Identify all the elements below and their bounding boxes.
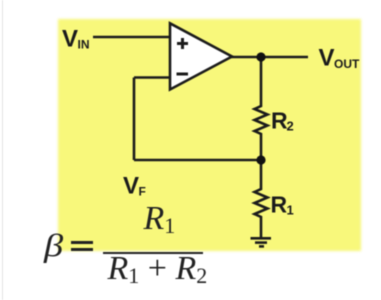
wire node A down to R2 <box>260 57 263 104</box>
node B (feedback junction) <box>256 155 265 164</box>
op-amp U1 <box>170 23 232 89</box>
fraction bar <box>103 252 203 255</box>
wire R1 to ground <box>260 219 263 238</box>
beta symbol <box>44 227 63 264</box>
wire op-amp output <box>231 56 308 59</box>
resistor R2 <box>255 104 268 136</box>
yellow panel background <box>58 19 361 251</box>
label R2 <box>271 108 294 134</box>
numerator R1 <box>144 200 176 238</box>
label VF <box>123 173 146 200</box>
wire node B down to R1 <box>260 160 263 187</box>
node A (output junction) <box>256 52 265 61</box>
denominator R1 + R2 <box>108 250 208 288</box>
wire feedback vertical <box>133 78 136 161</box>
label R1 <box>271 192 294 218</box>
label VOUT <box>319 45 361 72</box>
wire R2 to node B <box>260 136 263 160</box>
faint screenshot border line at left <box>2 0 3 300</box>
label VIN <box>62 26 90 53</box>
wire Vin to + input <box>93 36 170 39</box>
wire feedback bottom to node B <box>134 159 261 162</box>
op-amp minus input marker <box>177 73 189 76</box>
resistor R1 <box>255 187 268 219</box>
op-amp plus input marker <box>177 38 188 49</box>
ground <box>251 238 272 246</box>
equals sign (two bars) <box>71 241 93 244</box>
wire feedback to - input <box>134 76 170 79</box>
